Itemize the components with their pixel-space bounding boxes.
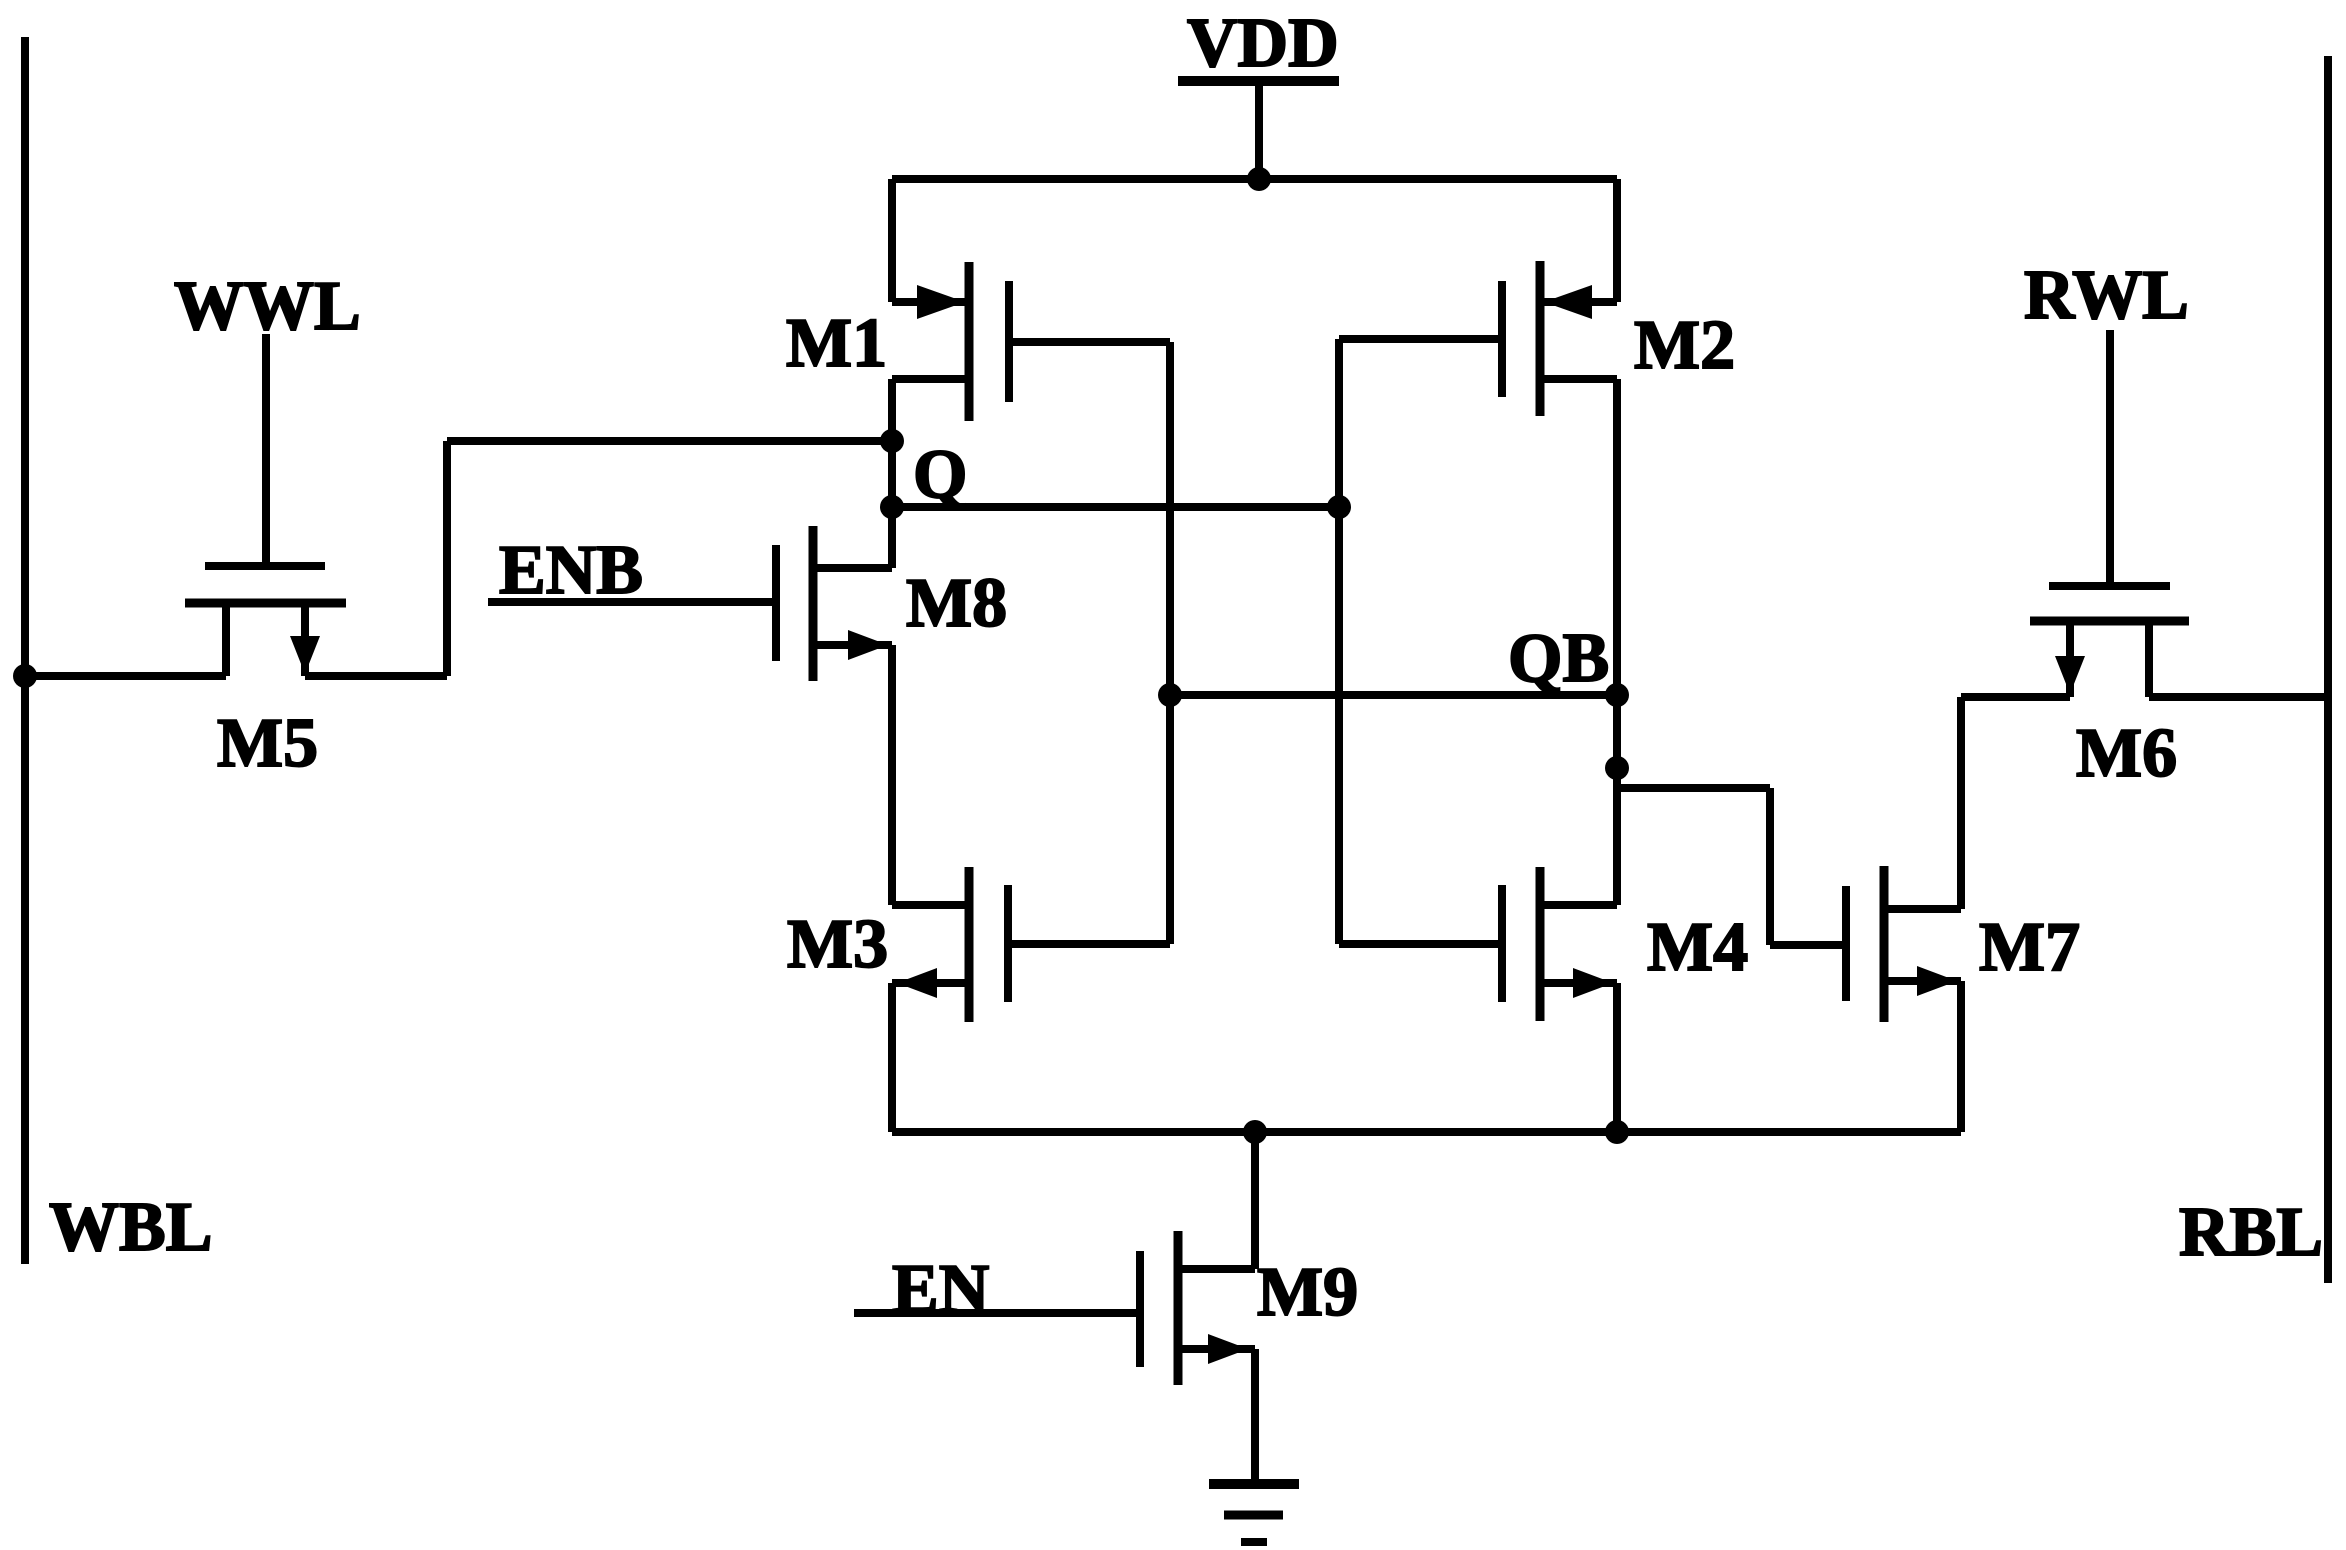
svg-text:RWL: RWL	[2024, 257, 2189, 334]
svg-text:M1: M1	[786, 305, 887, 382]
svg-text:RBL: RBL	[2179, 1194, 2323, 1271]
svg-text:M6: M6	[2076, 715, 2177, 792]
svg-text:EN: EN	[892, 1251, 989, 1328]
svg-text:M3: M3	[787, 906, 888, 983]
svg-text:Q: Q	[913, 436, 967, 513]
svg-text:VDD: VDD	[1187, 5, 1339, 82]
svg-text:M8: M8	[906, 565, 1007, 642]
svg-text:M9: M9	[1257, 1254, 1358, 1331]
svg-text:WBL: WBL	[49, 1189, 212, 1266]
svg-text:M4: M4	[1647, 909, 1748, 986]
svg-text:M2: M2	[1634, 307, 1735, 384]
svg-text:ENB: ENB	[499, 532, 643, 609]
svg-text:M7: M7	[1979, 909, 2080, 986]
svg-text:M5: M5	[217, 705, 318, 782]
svg-text:WWL: WWL	[174, 268, 361, 345]
svg-text:QB: QB	[1508, 620, 1609, 697]
